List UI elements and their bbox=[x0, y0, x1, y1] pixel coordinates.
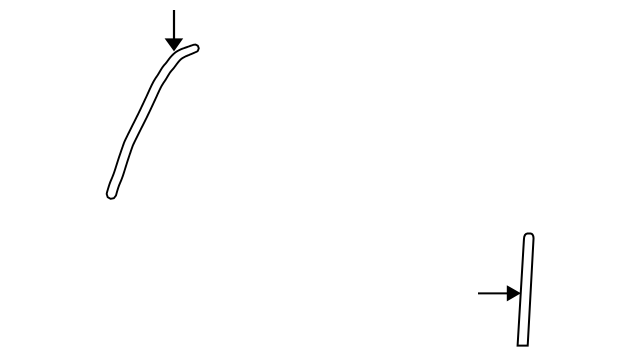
right vertical strip bbox=[518, 234, 534, 346]
down arrow pointing at top of left strip bbox=[165, 10, 184, 51]
right arrow pointing at right strip bbox=[478, 285, 521, 301]
left curved molding strip bbox=[107, 45, 199, 199]
